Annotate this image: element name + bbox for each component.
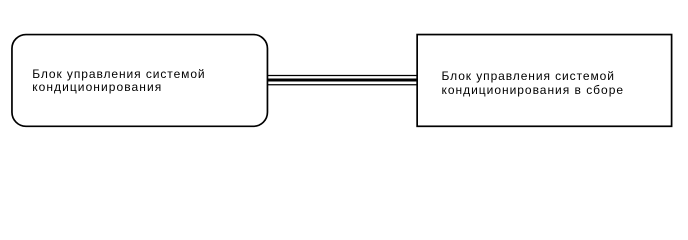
svg-text:кондиционирования в сборе: кондиционирования в сборе bbox=[442, 83, 625, 97]
svg-text:Блок управления системой: Блок управления системой bbox=[32, 67, 205, 81]
svg-text:кондиционирования: кондиционирования bbox=[32, 80, 162, 94]
svg-text:Блок управления системой: Блок управления системой bbox=[442, 69, 615, 83]
